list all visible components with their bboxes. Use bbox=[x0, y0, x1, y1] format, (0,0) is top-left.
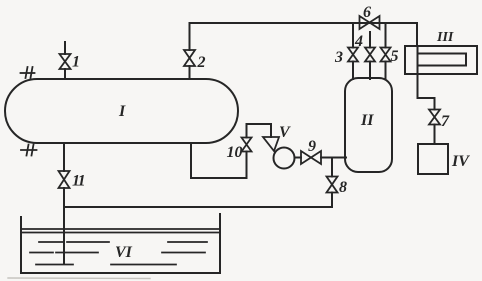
valve 4 bbox=[365, 48, 375, 62]
liquid surface line 2 bbox=[21, 232, 219, 234]
svg-text:2: 2 bbox=[197, 54, 206, 71]
valve 7 bbox=[429, 110, 440, 125]
pipe box III to valve 7 bbox=[418, 74, 435, 110]
pipe header top bbox=[190, 22, 417, 24]
pipe valve 9 to vessel II bbox=[321, 157, 346, 159]
pipe riser valve 2 to header bbox=[189, 23, 191, 50]
pipe valve 8 down to return line bbox=[331, 193, 333, 208]
valve 5 bbox=[381, 48, 391, 62]
svg-text:I: I bbox=[118, 103, 126, 120]
svg-text:9: 9 bbox=[308, 138, 316, 155]
svg-text:IV: IV bbox=[451, 153, 470, 170]
svg-text:11: 11 bbox=[72, 173, 85, 190]
liquid dash row 2 bbox=[30, 252, 205, 254]
tank VI (open basin) bbox=[21, 214, 220, 273]
fitting hash top-left of tank I bbox=[21, 67, 35, 78]
pipe valve 1 to tank I bbox=[64, 69, 66, 79]
pipe vent stub above valve 4 bbox=[369, 32, 371, 48]
liquid surface line 1 bbox=[21, 228, 219, 230]
pipe drop to valve 8 bbox=[331, 158, 333, 177]
pipe valve 4 to vessel II bbox=[369, 62, 371, 80]
svg-text:6: 6 bbox=[363, 4, 371, 21]
pipe branch header to valve 3 bbox=[352, 23, 354, 48]
fitting hash bottom-left of tank I bbox=[21, 145, 37, 156]
pipe return line to tank VI bbox=[64, 206, 332, 208]
box III (heat exchanger) bbox=[405, 46, 477, 74]
valve 6 bbox=[360, 16, 380, 29]
svg-text:II: II bbox=[360, 112, 374, 129]
pipe valve 2 to tank I bbox=[189, 66, 191, 79]
pipe tank I to valve 11 bbox=[63, 143, 65, 171]
pipe header drop to box III bbox=[416, 23, 418, 46]
tank I (horizontal vessel) bbox=[5, 79, 238, 143]
svg-text:4: 4 bbox=[354, 33, 363, 50]
svg-text:1: 1 bbox=[72, 54, 80, 71]
pipe pump to valve 9 bbox=[295, 157, 302, 159]
svg-text:5: 5 bbox=[391, 48, 399, 65]
svg-text:VI: VI bbox=[115, 244, 133, 261]
box IV bbox=[418, 144, 448, 174]
pump V body bbox=[274, 148, 295, 169]
pipe valve 3 to vessel II bbox=[352, 62, 354, 80]
svg-text:3: 3 bbox=[334, 49, 343, 66]
pipe below valve 10 bbox=[246, 152, 248, 179]
svg-text:7: 7 bbox=[441, 113, 450, 130]
valve 1 bbox=[60, 54, 71, 69]
inner tube of box III bbox=[418, 54, 467, 66]
pipe valve 5 to vessel II bbox=[385, 62, 387, 80]
valve 9 bbox=[301, 151, 321, 164]
svg-text:8: 8 bbox=[339, 179, 347, 196]
liquid dash row 1 bbox=[39, 241, 207, 243]
valve 11 bbox=[59, 171, 70, 188]
pipe valve 10 to pump inlet bbox=[247, 124, 272, 138]
valve 2 bbox=[184, 50, 195, 66]
svg-text:10: 10 bbox=[227, 144, 243, 161]
pipe dip tube into tank VI bbox=[63, 188, 65, 264]
vessel II (vertical tank) bbox=[345, 78, 392, 172]
pipe tank I bottom outlet to valve 10 bbox=[191, 143, 247, 178]
valve 10 bbox=[242, 138, 252, 152]
pipe valve 7 to box IV bbox=[434, 125, 436, 145]
valve 3 bbox=[348, 48, 358, 62]
valve 8 bbox=[327, 177, 338, 193]
scan shadow below tank VI bbox=[8, 277, 150, 280]
svg-text:V: V bbox=[279, 124, 291, 141]
pipe branch header to valve 5 bbox=[385, 23, 387, 48]
pump V funnel bbox=[263, 137, 279, 151]
pipe through box III bbox=[417, 46, 419, 74]
svg-text:III: III bbox=[436, 30, 454, 45]
pipe stub above valve 1 bbox=[64, 42, 66, 54]
liquid dash row 3 bbox=[36, 264, 176, 266]
